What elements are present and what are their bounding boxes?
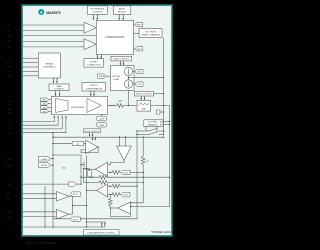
pin tag FBO1 — [70, 192, 80, 197]
gain input wire G1 — [23, 115, 55, 121]
op-amp OA5 — [57, 210, 70, 219]
svg-text:IN1-: IN1- — [8, 30, 12, 32]
long vertical bus left — [52, 133, 54, 227]
wire VSET to gate column — [76, 183, 81, 185]
junction mode on bus — [52, 164, 53, 165]
gate vertical from gm — [80, 155, 82, 184]
svg-text:SELECT: SELECT — [118, 12, 127, 14]
junction slew on v1 — [163, 93, 164, 94]
gain input wire G2 — [23, 115, 59, 125]
svg-text:MODE: MODE — [41, 165, 48, 167]
vertical wire x45 — [44, 186, 46, 227]
current source I2 — [124, 80, 132, 88]
svg-text:IN2-: IN2- — [8, 47, 12, 49]
gain set tag GS4 — [41, 110, 52, 114]
gain set tag GS2 — [41, 102, 52, 106]
svg-text:COMPENSATION: COMPENSATION — [85, 87, 102, 90]
wire RDY — [23, 75, 39, 77]
wire IN2+ — [23, 40, 84, 42]
driver amp triangle — [87, 98, 102, 112]
load amplifier control box — [84, 230, 120, 235]
maxim logo circle — [38, 9, 44, 15]
taps rail to down amp — [120, 137, 126, 146]
enable stub line — [87, 221, 107, 223]
svg-text:CMP1: CMP1 — [136, 25, 142, 27]
junction driver output b — [113, 105, 114, 106]
svg-text:GAIN: GAIN — [56, 85, 62, 88]
junction merge right — [86, 205, 87, 206]
junction OA3 output — [110, 207, 111, 208]
wire FB2+ — [23, 211, 57, 213]
wire DIN — [23, 66, 39, 68]
wire resistor top — [89, 169, 91, 171]
svg-text:1kΩ: 1kΩ — [62, 168, 66, 170]
OA1 output wire left — [87, 168, 96, 170]
mux trapezoid — [56, 98, 69, 112]
svg-text:ACTIVE: ACTIVE — [113, 75, 121, 78]
svg-text:CLAMP: CLAMP — [41, 158, 49, 161]
hysteresis control box — [88, 6, 108, 14]
junction x45 bottom — [44, 226, 45, 227]
svg-text:OUT2: OUT2 — [123, 195, 129, 197]
junction VSET column — [80, 183, 81, 184]
op-amp OA1 — [95, 162, 108, 176]
junction drain bottom — [86, 226, 87, 227]
pin tag VREF — [98, 74, 111, 78]
junction OA1 lower — [110, 172, 111, 173]
wire resistor bottom — [89, 176, 91, 178]
border return vertical — [131, 106, 170, 207]
svg-text:MAX8570: MAX8570 — [46, 11, 61, 15]
junction R1 vr — [143, 177, 144, 178]
junction col s2 — [136, 134, 137, 135]
junction col s1 — [136, 130, 137, 131]
arrows droop to driver — [90, 91, 95, 96]
comparator A1 — [84, 22, 96, 33]
gain set tag GS3 — [41, 106, 52, 110]
svg-text:SERIAL: SERIAL — [45, 63, 54, 66]
pin tag MODE — [38, 163, 53, 168]
arrows rail to gm amp — [92, 137, 96, 140]
svg-text:EN: EN — [9, 227, 12, 229]
wire down amp to OA1 input — [108, 161, 124, 165]
OA5 output wire — [69, 206, 73, 215]
svg-text:INPUT: INPUT — [119, 9, 126, 11]
arrows comparators to offset box — [97, 55, 102, 59]
wire mini box to v1 — [160, 111, 164, 113]
pin tag VSET inline — [69, 182, 77, 186]
junction driver output — [110, 105, 111, 106]
junction S2 on v1 — [163, 134, 164, 135]
wire FB1+ — [23, 193, 57, 195]
serial interface box — [38, 53, 60, 78]
comparator A2 — [84, 39, 96, 50]
resistor Z2 — [112, 193, 121, 197]
pin tag OUT1 — [121, 170, 130, 175]
diagram panel — [22, 5, 172, 236]
gain input wire G3 — [23, 115, 63, 129]
svg-text:GS1: GS1 — [43, 100, 47, 102]
svg-text:HYSTERESIS: HYSTERESIS — [90, 9, 104, 11]
input select box — [113, 6, 130, 14]
svg-text:gm: gm — [77, 144, 80, 146]
junction toc a — [169, 121, 170, 122]
junction gate — [80, 164, 81, 165]
svg-text:RDY: RDY — [7, 76, 12, 78]
gain input wire G4 — [23, 115, 67, 133]
svg-text:COMPARATORS: COMPARATORS — [105, 36, 125, 39]
wire gm box to amp — [84, 143, 86, 145]
wire IN2- — [23, 46, 84, 48]
svg-text:COMP: COMP — [99, 125, 106, 127]
OA2 base lower input wire — [108, 194, 112, 196]
svg-text:INTERFACE: INTERFACE — [43, 66, 56, 69]
arrows slew to limiter — [140, 96, 145, 100]
junction Z2b column — [136, 186, 137, 187]
junction between sources — [128, 77, 129, 78]
junction OA2 lower — [110, 194, 111, 195]
switch S1 — [137, 126, 164, 131]
svg-text:LOAD AMPLIFIER CONTROL: LOAD AMPLIFIER CONTROL — [87, 232, 116, 235]
OA2 base upper input wire — [108, 185, 112, 187]
svg-text:*TRIMMED LEVELS: *TRIMMED LEVELS — [151, 231, 173, 234]
wire active load down to output rail — [127, 91, 129, 106]
svg-text:CONTROL: CONTROL — [92, 12, 103, 14]
junction OA2 upper — [110, 186, 111, 187]
vertical to rail R2 — [83, 169, 85, 183]
OA3 output wire — [110, 207, 118, 209]
junction enable stub — [86, 221, 87, 222]
svg-text:DROOP: DROOP — [90, 85, 98, 87]
junction tap a — [119, 137, 120, 138]
transistor Q1 — [81, 156, 87, 169]
arrows load amp control up — [101, 222, 106, 227]
op-amp OA4 — [57, 192, 70, 202]
svg-text:SET2: SET2 — [73, 219, 79, 221]
svg-text:FB2+: FB2+ — [6, 212, 12, 214]
svg-text:SCLK: SCLK — [6, 62, 12, 64]
svg-text:R*: R* — [147, 161, 150, 163]
driver output wire — [108, 105, 117, 107]
junction R1 left — [89, 177, 90, 178]
op-amp OA3 left pointing — [118, 202, 131, 214]
OA2 output wire left — [87, 189, 97, 191]
pin tag CMP1 — [134, 23, 143, 27]
offset correction box — [84, 59, 104, 67]
svg-text:OUT1: OUT1 — [123, 173, 129, 175]
comparators box — [96, 20, 133, 54]
junction active load on rail — [128, 105, 129, 106]
OA1 base lower input wire — [108, 171, 112, 173]
svg-text:OFFSET: OFFSET — [90, 61, 99, 63]
to other channels box — [144, 120, 163, 127]
svg-text:MODE: MODE — [5, 165, 12, 167]
svg-text:CLMP: CLMP — [99, 118, 105, 120]
op-amp OA2 — [97, 184, 108, 197]
svg-text:SET1: SET1 — [73, 194, 79, 196]
out from other channels box — [134, 29, 163, 38]
vertical wire vr with resistor RL — [131, 137, 146, 203]
gain control box — [49, 84, 69, 91]
junction OA1 output column — [86, 169, 87, 170]
junction source b — [86, 168, 87, 169]
arrows hysteresis to comparators — [93, 14, 99, 20]
svg-text:OTHER CHANNELS: OTHER CHANNELS — [141, 33, 161, 36]
wire IN1+ — [23, 24, 84, 26]
svg-text:MUX/DRIVER: MUX/DRIVER — [71, 107, 85, 109]
wire FB2- — [23, 216, 57, 218]
pin tag FBO2 — [70, 217, 80, 222]
svg-text:20Ω: 20Ω — [118, 101, 122, 103]
junction rail left — [52, 137, 53, 138]
OA3 feedback loop — [110, 208, 130, 217]
pin labels on left black border — [5, 25, 12, 229]
pin tag COMP — [97, 123, 107, 127]
svg-text:LOAD CONTROL: LOAD CONTROL — [113, 58, 130, 61]
resistor Z2b — [112, 184, 137, 188]
svg-text:GS4: GS4 — [43, 111, 47, 113]
svg-text:DOUT: DOUT — [6, 71, 13, 73]
junction gm output — [97, 146, 98, 147]
svg-text:VREF: VREF — [99, 76, 105, 78]
pin tag CS1 — [133, 69, 143, 73]
wire active load mid to v1 — [128, 77, 163, 79]
active load box — [111, 66, 135, 91]
junction gm on bus — [52, 143, 53, 144]
mode control box — [84, 129, 101, 133]
junction bus bottom — [52, 226, 53, 227]
svg-text:CMP2: CMP2 — [136, 49, 142, 51]
gm box — [53, 142, 84, 146]
svg-text:MODE CONTROL: MODE CONTROL — [85, 131, 100, 133]
svg-text:IN2+: IN2+ — [7, 41, 12, 43]
svg-text:FB2-: FB2- — [7, 217, 12, 219]
svg-text:DIN: DIN — [8, 67, 12, 69]
wire REF — [23, 35, 97, 37]
svg-text:CHANNELS: CHANNELS — [147, 124, 158, 127]
wire between current sources — [127, 76, 129, 80]
svg-text:IN1+: IN1+ — [7, 25, 12, 27]
resistor Z1 — [112, 171, 121, 175]
svg-text:LIMIT: LIMIT — [141, 108, 147, 110]
wire to other channels a — [163, 120, 170, 122]
wire bus to gate column — [53, 154, 81, 156]
svg-text:TO OTHER: TO OTHER — [148, 122, 158, 124]
wire resistor to slew box — [123, 105, 137, 107]
svg-text:CORRECTION: CORRECTION — [87, 64, 101, 66]
enable wire bottom — [23, 226, 105, 228]
arrows load control to active load — [120, 61, 125, 66]
svg-text:FB1+: FB1+ — [6, 194, 12, 196]
vertical wire v1 — [163, 38, 165, 135]
arrows gain control to mux — [55, 91, 61, 97]
pin tag OUT2 — [121, 192, 130, 197]
OA4 output wire — [69, 196, 73, 205]
gm amp feedback loop — [81, 147, 98, 153]
wire DOUT — [23, 70, 39, 72]
black page background — [0, 0, 190, 250]
pin tag CS2 — [133, 82, 143, 86]
mux driver box — [52, 96, 108, 114]
drain vertical down — [86, 169, 88, 227]
svg-text:OUT FROM: OUT FROM — [145, 31, 156, 33]
wire VSET from border — [23, 183, 69, 185]
droop compensation box — [82, 83, 106, 91]
junction rail on v1 lower — [163, 137, 164, 138]
junction OA2 output column — [86, 190, 87, 191]
junction toc b — [169, 124, 170, 125]
svg-text:GS2: GS2 — [43, 104, 47, 106]
junction R1 border vertical — [169, 177, 170, 178]
arrows serial to gain control — [53, 78, 58, 84]
junction source a — [83, 168, 84, 169]
current source I1 — [124, 67, 132, 75]
wire limiter to v1 — [151, 105, 170, 107]
sense resistor box — [88, 170, 92, 177]
svg-text:CLMP: CLMP — [6, 159, 12, 161]
junction tap b — [125, 137, 126, 138]
junction almid v1 — [163, 77, 164, 78]
junction S1 on v1 — [163, 130, 164, 131]
slew control box — [135, 91, 164, 96]
junction OA3 lower — [130, 206, 131, 207]
junction vr on rail — [143, 137, 144, 138]
switch S2 — [137, 126, 164, 134]
junction bus gate — [52, 154, 53, 155]
junction OA1 lower input on rail — [91, 177, 92, 178]
wire IN1- — [23, 29, 84, 31]
shutdown mini box — [157, 110, 161, 114]
junction R2 vr — [143, 182, 144, 183]
svg-text:SLEW CONTROL: SLEW CONTROL — [136, 94, 153, 96]
arrows input select to comparators — [118, 14, 124, 20]
load control box — [111, 56, 132, 61]
source wire left — [84, 168, 90, 170]
gm amp triangle — [86, 140, 98, 154]
sense rail R1 — [81, 175, 170, 179]
slew limiter box — [137, 100, 151, 111]
gain set tag GS1 — [41, 98, 52, 102]
down amp triangle — [117, 146, 132, 161]
wire OUT1 to vr — [130, 171, 143, 173]
junction mini box v1 — [163, 111, 164, 112]
wire CS — [23, 57, 39, 59]
pin tag CLMP — [97, 115, 107, 121]
wire to other channels b — [163, 124, 170, 126]
junction OUT1 vr — [143, 172, 144, 173]
vertical resistor Z3 — [108, 195, 112, 208]
junction rail on v1 — [163, 105, 164, 106]
wire FB1- — [23, 198, 57, 200]
sense rail R2 — [84, 181, 144, 185]
pin tag CLAMP — [38, 156, 53, 161]
wire SCLK — [23, 62, 39, 64]
svg-text:GS3: GS3 — [43, 107, 47, 109]
resistor 20 ohm zigzag — [117, 104, 124, 108]
arrows mode control to rail — [89, 133, 94, 137]
svg-text:FB1-: FB1- — [7, 199, 12, 201]
junction merge — [72, 205, 73, 206]
svg-text:REF: REF — [7, 35, 12, 37]
svg-text:CONTROL: CONTROL — [54, 89, 65, 91]
svg-text:LOAD: LOAD — [113, 78, 119, 81]
control rail horizontal — [53, 136, 164, 138]
junction clamp on bus — [52, 158, 53, 159]
pin tag CMP2 — [134, 47, 143, 51]
feedback column vertical — [53, 131, 137, 219]
svg-text:Figure 5. Functional Diagram: Figure 5. Functional Diagram — [26, 242, 57, 245]
merge wire to drain column — [73, 205, 87, 207]
junction OA3 upper — [130, 202, 131, 203]
